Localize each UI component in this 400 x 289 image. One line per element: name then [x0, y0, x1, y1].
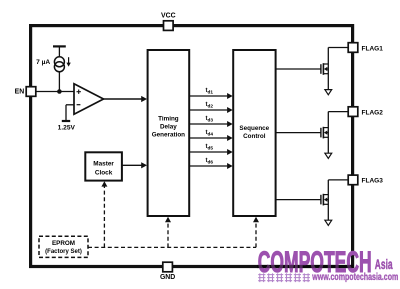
svg-text:Control: Control	[243, 133, 266, 140]
svg-text:FLAG3: FLAG3	[362, 178, 384, 185]
svg-text:td4: td4	[206, 130, 214, 137]
svg-text:Generation: Generation	[152, 132, 185, 139]
svg-text:(Factory Set): (Factory Set)	[45, 249, 82, 255]
svg-text:td2: td2	[206, 102, 214, 109]
svg-text:7 µA: 7 µA	[36, 59, 50, 66]
svg-text:EN: EN	[15, 88, 25, 95]
svg-text:1.25V: 1.25V	[58, 124, 76, 131]
svg-text:td6: td6	[206, 158, 214, 165]
svg-text:Asia: Asia	[375, 256, 393, 272]
svg-text:FLAG1: FLAG1	[362, 45, 384, 52]
svg-text:Clock: Clock	[95, 170, 113, 177]
svg-text:td3: td3	[206, 116, 214, 123]
svg-text:VCC: VCC	[161, 13, 176, 20]
svg-text:www.compotechasia.com: www.compotechasia.com	[312, 272, 399, 283]
svg-text:td5: td5	[206, 144, 214, 151]
svg-text:FLAG2: FLAG2	[362, 109, 384, 116]
svg-text:td1: td1	[206, 88, 214, 95]
svg-text:EPROM: EPROM	[52, 240, 75, 247]
svg-text:GND: GND	[160, 274, 175, 281]
svg-text:Sequence: Sequence	[239, 125, 269, 132]
svg-text:Timing: Timing	[158, 116, 179, 123]
svg-text:Delay: Delay	[160, 124, 177, 131]
svg-text:Master: Master	[93, 161, 114, 168]
